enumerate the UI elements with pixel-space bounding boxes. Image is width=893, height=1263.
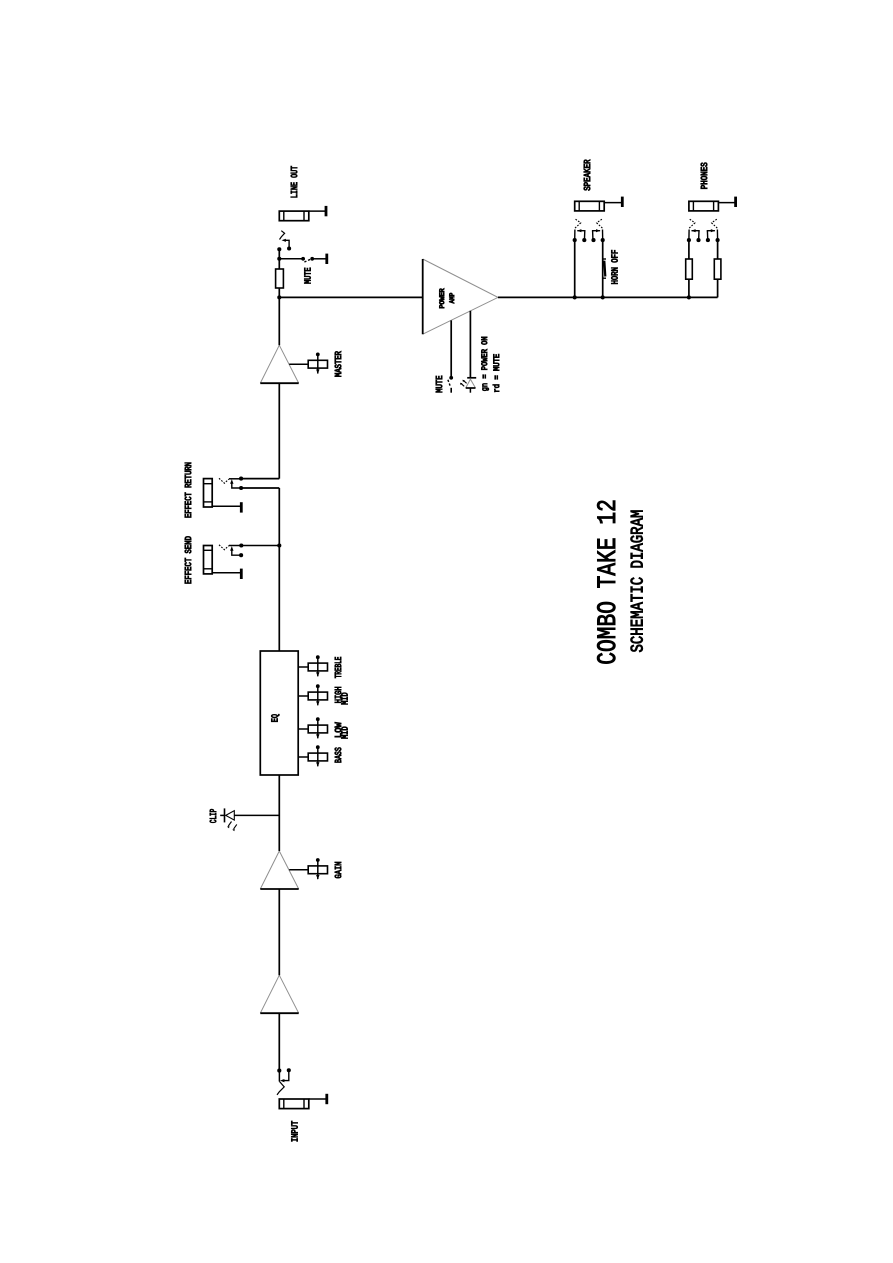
- wire junction to R1: [278, 288, 280, 297]
- resistor R3 phones: [714, 259, 721, 279]
- node speaker switch contact: [582, 238, 586, 242]
- wire bus end to R3: [717, 279, 719, 297]
- wire bus to speaker tip: [574, 240, 576, 297]
- switch jack tip contact of PHONES: [689, 219, 700, 241]
- wire R1 to mute node: [278, 259, 280, 269]
- LED CLIP indicator: [220, 808, 279, 831]
- connector J2 EFFECT SEND jack: [204, 546, 213, 574]
- node bus to speaker: [573, 295, 577, 299]
- svg-text:GAIN: GAIN: [333, 862, 344, 879]
- node bus to phones A: [687, 295, 691, 299]
- wire mute node to LINE OUT switch: [278, 249, 280, 259]
- ground chassis at LINE OUT sleeve: [309, 206, 326, 216]
- node EFFECT RETURN switch contact: [239, 486, 243, 490]
- svg-text:MUTE: MUTE: [302, 267, 313, 284]
- node input switch contact B: [287, 1068, 291, 1072]
- wire bus to R2: [688, 279, 690, 297]
- svg-text:CLIP: CLIP: [208, 808, 219, 823]
- svg-text:MUTE: MUTE: [434, 375, 445, 393]
- potentiometer HIGH MID: [298, 684, 327, 705]
- potentiometer MASTER: [289, 353, 327, 374]
- svg-text:EFFECT RETURN: EFFECT RETURN: [183, 462, 194, 518]
- wire output junction down to power amp: [279, 296, 422, 298]
- block EQ: [260, 651, 298, 775]
- wire EQ to effect send junction: [278, 546, 280, 652]
- node bus to horn: [601, 295, 605, 299]
- node EFFECT RETURN tip: [239, 477, 243, 481]
- svg-text:MID: MID: [340, 726, 351, 739]
- connector J1 INPUT jack: [279, 1099, 309, 1109]
- switch jack contact of EFFECT SEND: [219, 545, 241, 555]
- potentiometer GAIN: [289, 858, 327, 880]
- switch HORN OFF: [603, 259, 606, 278]
- node phones switch contact B: [706, 238, 710, 242]
- node mute junction: [277, 257, 281, 261]
- wire R3 to phones ring: [717, 240, 719, 259]
- svg-text:LINE OUT: LINE OUT: [289, 165, 300, 198]
- connector J5 SPEAKER jack: [575, 201, 605, 211]
- switch jack contact of EFFECT RETURN: [219, 478, 241, 488]
- wire U2 to EQ, CLIP tap: [278, 775, 280, 851]
- ground chassis at PHONES sleeve: [718, 197, 735, 207]
- op-amp U3 master stage: [260, 345, 298, 383]
- wire up to EFFECT RETURN switch contact: [241, 487, 279, 489]
- svg-text:MID: MID: [340, 692, 351, 705]
- svg-text:BASS: BASS: [333, 747, 344, 763]
- node EFFECT SEND tip: [239, 543, 243, 547]
- op-amp U2 gain stage: [260, 851, 298, 889]
- svg-text:POWER: POWER: [439, 288, 447, 308]
- wire U1 to U2: [278, 889, 280, 975]
- svg-text:PHONES: PHONES: [699, 162, 710, 189]
- ground chassis at SPEAKER sleeve: [604, 197, 622, 207]
- switch jack tip contact of INPUT (normalling): [277, 1070, 289, 1095]
- wire EFFECT RETURN tip down to chain: [241, 478, 279, 480]
- svg-text:EQ: EQ: [270, 714, 281, 723]
- node phones tip contact: [687, 238, 691, 242]
- wire input to buffer U1: [278, 1013, 280, 1070]
- switch MUTE (power amp control): [448, 380, 451, 393]
- connector J3 EFFECT RETURN jack: [204, 479, 213, 507]
- wire U3 to output node: [278, 297, 280, 345]
- wire R2 to phones tip: [688, 240, 690, 259]
- potentiometer BASS: [298, 745, 327, 766]
- svg-text:HORN OFF: HORN OFF: [610, 250, 621, 285]
- op-amp U4 POWER AMP triangle: [423, 259, 498, 334]
- wire bus to horn contact via HORN OFF: [602, 240, 604, 297]
- switch jack tip contact of SPEAKER: [575, 219, 586, 241]
- svg-text:SCHEMATIC DIAGRAM: SCHEMATIC DIAGRAM: [629, 510, 649, 653]
- connector J6 PHONES jack: [689, 201, 719, 211]
- svg-text:SPEAKER: SPEAKER: [582, 159, 593, 191]
- node mute switch B: [310, 257, 314, 261]
- ground chassis at EFFECT SEND sleeve: [212, 569, 241, 579]
- ground at MUTE switch: [312, 254, 327, 264]
- node input switch contact A: [277, 1069, 281, 1073]
- svg-text:MASTER: MASTER: [333, 351, 344, 377]
- wire send tap up to EFFECT SEND jack: [241, 545, 279, 547]
- node mute switch A: [301, 257, 305, 261]
- wire send junction to return switch leg: [278, 488, 280, 546]
- potentiometer LOW MID: [298, 717, 327, 738]
- svg-text:AMP: AMP: [449, 293, 457, 304]
- node horn switch contact: [591, 238, 595, 242]
- svg-text:rd = MUTE: rd = MUTE: [492, 354, 502, 393]
- connector J4 LINE OUT jack: [279, 211, 309, 221]
- node output junction: [277, 295, 281, 299]
- node speaker tip contact: [573, 238, 577, 242]
- resistor R2 phones: [686, 259, 693, 279]
- node line out switch B: [287, 246, 291, 250]
- node line out switch A: [277, 247, 281, 251]
- resistor R1 line out series: [276, 269, 284, 288]
- switch jack tip contact of LINE OUT: [280, 231, 290, 249]
- node phones switch contact A: [696, 238, 700, 242]
- wire mute control to power amp: [450, 320, 452, 377]
- LED pilot power/mute indicator: [460, 378, 476, 393]
- node EFFECT SEND switch contact: [239, 553, 243, 557]
- switch jack ring contact of SPEAKER (horn): [592, 219, 603, 241]
- potentiometer TREBLE: [298, 655, 327, 676]
- svg-text:EFFECT SEND: EFFECT SEND: [183, 536, 194, 584]
- switch jack ring contact of PHONES: [707, 219, 718, 241]
- svg-text:INPUT: INPUT: [290, 1120, 301, 1142]
- svg-text:COMBO TAKE 12: COMBO TAKE 12: [593, 499, 623, 665]
- node effect send junction: [277, 543, 281, 547]
- node phones ring contact: [716, 238, 720, 242]
- node horn ring contact: [601, 238, 605, 242]
- ground chassis at EFFECT RETURN sleeve: [212, 502, 241, 512]
- switch MUTE (line out): [279, 259, 311, 262]
- op-amp U1 input buffer: [260, 975, 298, 1013]
- ground chassis at INPUT jack sleeve: [309, 1094, 327, 1104]
- node mute control contact: [449, 376, 453, 380]
- wire power amp output bus: [498, 296, 718, 298]
- svg-text:TREBLE: TREBLE: [333, 656, 344, 678]
- svg-text:gn = POWER ON: gn = POWER ON: [480, 336, 490, 391]
- wire pilot LED to power amp: [469, 311, 471, 378]
- wire return to master U3: [278, 383, 280, 478]
